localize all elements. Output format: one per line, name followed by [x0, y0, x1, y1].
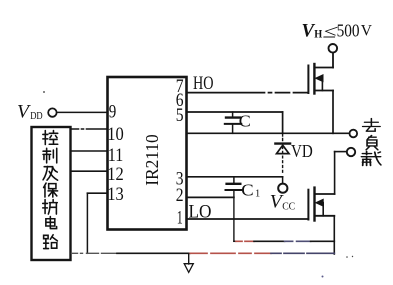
diode VD cathode bar — [275, 142, 290, 144]
char 控 — [43, 131, 58, 145]
wire pin10 dash-dot from control block to IC — [71, 128, 108, 130]
diode VD stem dotted top — [282, 135, 284, 141]
capacitor C1 stem top — [233, 177, 235, 183]
char 制 — [43, 148, 57, 163]
transistor Q1 body arrow — [316, 75, 323, 82]
transistor Q1 upper mosfet gate bar — [307, 66, 309, 94]
capacitor C top plate — [226, 116, 240, 118]
transistor Q1 source vertical to phase node — [332, 91, 334, 134]
wire pin3 to VCC corner — [187, 176, 283, 178]
wire ground rail B — [72, 252, 118, 254]
transistor Q2 channel bar — [313, 188, 315, 221]
wire pin2 to C1 stem — [187, 196, 234, 198]
speck — [43, 91, 45, 93]
char 电 — [46, 217, 57, 229]
diode VD dotted stem bottom — [282, 147, 284, 172]
node load terminal lower circle — [347, 148, 355, 156]
transistor Q1 drain stub — [315, 67, 333, 69]
char 护 — [43, 200, 58, 215]
transistor Q2 drain stub — [315, 193, 335, 195]
control block box — [32, 127, 71, 260]
diode VD triangle anode — [277, 145, 290, 153]
node VH terminal circle — [329, 44, 338, 53]
ground symbol arrowhead — [184, 264, 193, 273]
wire from lower load terminal to drain corner — [335, 151, 347, 153]
wire pin13 horizontal — [87, 192, 107, 194]
transistor Q1 body stub — [321, 78, 323, 90]
char 及 — [43, 166, 58, 180]
wire pin6 vertical down to VS line — [282, 112, 284, 133]
wire pin9 from VDD terminal to IC — [57, 111, 108, 113]
capacitor C1 bottom plate — [226, 189, 242, 191]
transistor Q1 channel bar — [313, 64, 315, 94]
capacitor C stem top — [232, 112, 234, 117]
capacitor C stem bottom — [232, 125, 234, 133]
speck dots bottom right — [346, 256, 348, 258]
wire pin1 LO to lower mosfet gate — [187, 218, 309, 220]
wire pin13 vertical down to ground rail — [86, 193, 88, 253]
transistor Q1 source stub — [315, 90, 333, 92]
wire drain vertical of lower mosfet — [334, 152, 336, 194]
ground symbol stem — [188, 253, 190, 264]
wire pin11 — [71, 150, 108, 152]
node VCC terminal circle — [278, 184, 287, 193]
capacitor C bottom plate — [225, 123, 242, 125]
transistor Q2 source stub — [315, 215, 334, 217]
char 路 — [44, 235, 58, 249]
transistor Q2 body arrow — [316, 199, 323, 206]
label 载 — [361, 152, 380, 166]
wire pin3 corner down to VCC terminal — [282, 177, 284, 184]
transistor Q2 lower mosfet gate bar — [307, 190, 309, 220]
wire pin12 — [71, 170, 108, 172]
wire pin6 to corner — [187, 111, 283, 113]
node VDD terminal circle — [48, 108, 56, 116]
node load terminal upper circle — [350, 130, 358, 138]
char 保 — [44, 183, 58, 197]
transistor Q1 drain vertical to VH terminal — [332, 53, 334, 68]
transistor Q2 source vertical down — [333, 216, 335, 254]
transistor Q2 body stub vertical — [322, 203, 324, 216]
capacitor C1 top plate — [227, 183, 241, 185]
capacitor C1 stem down to bottom line — [233, 191, 235, 241]
label 负 — [366, 136, 378, 150]
label 去 (to load) — [361, 119, 380, 166]
wire bottom line A from C1 to source (red/blue scan) — [234, 240, 236, 242]
wire pin7 HO to upper mosfet gate — [187, 92, 308, 94]
op-amp U1 IC IR2110 body — [108, 77, 187, 230]
wire pin5 VS phase line to load terminal — [187, 132, 350, 134]
